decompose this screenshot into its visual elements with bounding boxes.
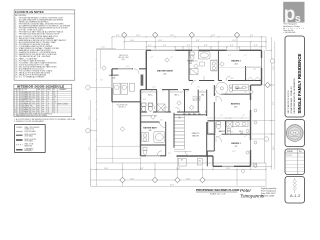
interior dim texts (100, 57, 256, 155)
svg-text:7'-2": 7'-2" (244, 92, 247, 94)
svg-text:4'-8": 4'-8" (204, 45, 208, 47)
svg-text:5-0: 5-0 (20, 106, 22, 108)
top dimension lines (112, 35, 266, 50)
svg-text:2-2: 2-2 (53, 98, 55, 100)
svg-text:2-0: 2-0 (20, 111, 22, 113)
fixtures: bath 3 (216, 82, 249, 94)
svg-text:W.I.C.: W.I.C. (175, 95, 180, 97)
svg-text:10'-2": 10'-2" (136, 35, 141, 37)
svg-text:15'-1": 15'-1" (211, 35, 216, 37)
svg-text:206: 206 (240, 133, 243, 135)
svg-text:PER CODE: PER CODE (193, 100, 201, 102)
svg-text:BATH 2: BATH 2 (219, 130, 225, 133)
svg-text:BATH 3: BATH 3 (236, 87, 242, 90)
roof outline west (96, 48, 146, 50)
exterior walls (112, 50, 262, 166)
sheet number box (285, 177, 305, 204)
svg-text:20'-0": 20'-0" (186, 178, 191, 180)
svg-text:207: 207 (235, 146, 238, 148)
svg-text:2-8: 2-8 (53, 92, 55, 94)
roof outline south (96, 162, 266, 164)
svg-text:FIN: FIN (42, 89, 44, 91)
svg-text:9'-0": 9'-0" (100, 80, 103, 82)
bottom dimension lines (91, 157, 266, 186)
svg-text:WD: WD (37, 111, 39, 113)
svg-text:2-8: 2-8 (20, 96, 22, 98)
svg-text:8'-4": 8'-4" (116, 35, 120, 37)
svg-text:10'-6": 10'-6" (273, 146, 275, 150)
svg-text:PT: PT (43, 106, 45, 108)
svg-text:BEDRM 2: BEDRM 2 (231, 103, 241, 105)
mbath lower fixtures (143, 148, 162, 156)
svg-text:PROPOSED SECOND FLOOR: PROPOSED SECOND FLOOR (196, 188, 240, 192)
svg-text:3'-0": 3'-0" (197, 87, 200, 89)
svg-text:LIN.: LIN. (201, 95, 205, 97)
fixtures: bath 2 (208, 121, 248, 133)
svg-text:5'-0": 5'-0" (187, 45, 191, 47)
svg-text:2-8: 2-8 (53, 104, 55, 106)
svg-text:WD: WD (37, 92, 39, 94)
svg-text:NEW ROOF: NEW ROOF (119, 55, 128, 57)
svg-text:2-6: 2-6 (20, 104, 22, 106)
svg-text:2-6: 2-6 (20, 92, 22, 94)
svg-text:4'-6": 4'-6" (143, 99, 146, 101)
svg-text:5'-4": 5'-4" (230, 132, 233, 134)
svg-text:44'-4": 44'-4" (170, 185, 175, 187)
svg-text:BEDRM 1: BEDRM 1 (231, 143, 241, 145)
top bath extras (189, 51, 218, 81)
svg-text:204: 204 (235, 64, 238, 66)
svg-text:POCKET DR - PTD: POCKET DR - PTD (23, 102, 35, 104)
svg-text:3'-6": 3'-6" (205, 111, 208, 113)
svg-text:SEC 0 BLOCK 00 LOT 00: SEC 0 BLOCK 00 LOT 00 (288, 90, 290, 114)
svg-text:5'-10": 5'-10" (101, 47, 105, 49)
svg-text:B: B (48, 96, 49, 98)
svg-text:BELOW - SEE: BELOW - SEE (118, 57, 128, 59)
svg-text:9'-0": 9'-0" (140, 168, 144, 170)
svg-text:6'-8": 6'-8" (196, 40, 200, 42)
svg-text:PT: PT (43, 104, 45, 106)
mech boxes (178, 159, 256, 167)
svg-text:PT: PT (43, 100, 45, 102)
svg-text:2-10: 2-10 (53, 102, 56, 104)
firm address (284, 23, 305, 35)
svg-text:WD: WD (37, 100, 39, 102)
svg-text:8'-0": 8'-0" (160, 120, 163, 122)
svg-text:6'-2": 6'-2" (126, 66, 129, 68)
svg-text:2-2: 2-2 (53, 111, 55, 113)
svg-text:208: 208 (149, 130, 152, 132)
bedrm3 closet doors (247, 67, 262, 81)
stamp box (285, 120, 305, 147)
svg-text:2-0: 2-0 (20, 98, 22, 100)
svg-text:WD: WD (37, 110, 39, 112)
svg-text:NEW 2x6 WOOD: NEW 2x6 WOOD (25, 139, 38, 141)
plumbing chase (141, 75, 144, 86)
svg-text:ISSUE: ISSUE (287, 151, 293, 153)
svg-text:G.C. TO OBTAIN ALL PERMITS: G.C. TO OBTAIN ALL PERMITS (19, 76, 45, 79)
svg-text:6'-5": 6'-5" (163, 45, 167, 47)
svg-text:PT: PT (43, 110, 45, 112)
svg-text:13'-6": 13'-6" (230, 78, 234, 80)
svg-text:WD: WD (37, 94, 39, 96)
svg-text:4-2: 4-2 (53, 100, 55, 102)
extra leader ticks (150, 54, 249, 137)
svg-text:12'-6": 12'-6" (89, 116, 91, 120)
svg-text:11: 11 (14, 111, 16, 113)
svg-text:WD: WD (37, 104, 39, 106)
svg-text:11'-0": 11'-0" (273, 66, 275, 70)
svg-text:C: C (48, 100, 49, 102)
svg-text:7'-4": 7'-4" (190, 57, 193, 59)
svg-text:WD: WD (37, 106, 39, 108)
door swings (134, 69, 231, 156)
svg-text:Peter: Peter (240, 188, 251, 193)
svg-text:NEW 2x4 WOOD: NEW 2x4 WOOD (25, 134, 38, 136)
svg-text:PROPOSED ADDITION / ALTERATION: PROPOSED ADDITION / ALTERATION (293, 78, 296, 114)
svg-text:LAUNDRY: LAUNDRY (109, 74, 119, 77)
keynote symbols (102, 58, 257, 173)
svg-text:PT: PT (43, 92, 45, 94)
left grid bubble (86, 129, 90, 133)
notes list rows (15, 16, 70, 78)
svg-text:WD: WD (37, 102, 39, 104)
floor plan notes box (14, 10, 75, 80)
svg-text:12'-8": 12'-8" (226, 168, 231, 170)
svg-text:5'-0": 5'-0" (168, 153, 171, 155)
svg-text:8'-2": 8'-2" (89, 146, 91, 150)
svg-text:SELF CLOSING: SELF CLOSING (58, 104, 68, 106)
svg-text:D: D (48, 102, 49, 104)
svg-text:2-4: 2-4 (20, 108, 22, 110)
svg-text:ROOF BELOW: ROOF BELOW (117, 105, 128, 107)
svg-text:14'-2": 14'-2" (176, 168, 181, 170)
Ps logo (283, 2, 304, 23)
svg-text:9'-2": 9'-2" (250, 35, 254, 37)
svg-text:R.A.: R.A. (293, 132, 297, 135)
svg-text:WD: WD (37, 98, 39, 100)
svg-text:4'-6": 4'-6" (254, 45, 258, 47)
svg-text:PT: PT (43, 108, 45, 110)
bottom title (196, 187, 276, 198)
windows in exterior walls (111, 49, 263, 167)
svg-text:2-4: 2-4 (20, 94, 22, 96)
svg-text:C: C (48, 106, 49, 108)
svg-text:PT: PT (43, 111, 45, 113)
svg-text:WD: WD (37, 108, 39, 110)
svg-text:SYMBOL: SYMBOL (16, 127, 22, 129)
fixtures: top bath (190, 52, 217, 75)
svg-text:21'-6": 21'-6" (158, 40, 163, 42)
door gaps (133, 68, 228, 157)
wall legend box (15, 125, 46, 153)
svg-text:202: 202 (113, 78, 116, 80)
svg-text:16'-6": 16'-6" (130, 178, 135, 180)
svg-text:12'-2": 12'-2" (232, 151, 236, 153)
svg-text:00 BAYSIDE AVE - TOWN, NY: 00 BAYSIDE AVE - TOWN, NY (290, 86, 293, 114)
right grid bubble mid (252, 138, 264, 140)
svg-text:SZ: SZ (20, 89, 22, 91)
svg-text:8'-0": 8'-0" (230, 45, 234, 47)
svg-text:10: 10 (14, 110, 16, 112)
svg-text:4'-2": 4'-2" (148, 45, 152, 47)
svg-text:10'-4": 10'-4" (104, 168, 109, 170)
svg-text:REMOVED: REMOVED (25, 145, 34, 147)
svg-text:BEDRM 3: BEDRM 3 (231, 61, 241, 63)
svg-text:MASTER BDRM: MASTER BDRM (157, 70, 173, 73)
svg-text:W.I.C.: W.I.C. (148, 95, 153, 97)
right grid bubble (270, 59, 274, 63)
svg-text:4-0: 4-0 (20, 100, 22, 102)
svg-text:BI-FOLD - PTD: BI-FOLD - PTD (23, 100, 33, 102)
svg-text:2-6: 2-6 (20, 110, 22, 112)
schedule footnotes (14, 118, 76, 123)
svg-text:2-10: 2-10 (53, 96, 56, 98)
closet rails (142, 68, 247, 93)
interior door schedule table (14, 84, 72, 117)
svg-text:2'-8": 2'-8" (253, 69, 256, 71)
stair treads (175, 112, 185, 149)
room labels (109, 55, 244, 163)
svg-text:SINGLE FAMILY RESIDENCE: SINGLE FAMILY RESIDENCE (297, 54, 302, 114)
svg-text:PT: PT (43, 102, 45, 104)
svg-text:2-8: 2-8 (53, 110, 55, 112)
svg-text:TYPE: TYPE (23, 89, 27, 91)
hall annotation (193, 95, 202, 102)
svg-text:A-1.2: A-1.2 (290, 193, 301, 198)
svg-text:10.27.21: 10.27.21 (287, 155, 293, 157)
svg-text:t. 000.000.0000: t. 000.000.0000 (284, 31, 296, 34)
svg-text:2-6: 2-6 (53, 94, 55, 96)
fixtures: laundry (114, 83, 135, 94)
svg-text:PT: PT (43, 94, 45, 96)
svg-text:2-6: 2-6 (53, 108, 55, 110)
svg-text:14'-6": 14'-6" (130, 40, 135, 42)
project title box (285, 36, 305, 117)
fixtures: master bath (141, 103, 166, 143)
svg-text:p: p (284, 4, 296, 25)
svg-text:SCALE: 1/4" = 1'-0": SCALE: 1/4" = 1'-0" (210, 192, 226, 195)
svg-text:5-2: 5-2 (53, 106, 55, 108)
stair landing lines (174, 115, 192, 152)
svg-text:12:03:35 -04'00': 12:03:35 -04'00' (261, 195, 275, 197)
svg-text:PT: PT (43, 96, 45, 98)
svg-text:M.BATH: M.BATH (187, 60, 194, 63)
svg-text:203: 203 (189, 63, 192, 65)
svg-text:205: 205 (234, 107, 237, 109)
interior walls (141, 50, 262, 166)
svg-text:PT: PT (43, 98, 45, 100)
svg-text:FLOOR PLAN NOTES: FLOOR PLAN NOTES (15, 10, 44, 14)
svg-text:11'-4": 11'-4" (232, 40, 237, 42)
svg-text:201: 201 (163, 73, 166, 75)
svg-text:INTERIOR DOOR SCHEDULE: INTERIOR DOOR SCHEDULE (17, 85, 64, 89)
upper-left dim (96, 47, 116, 49)
svg-text:BELOW: BELOW (192, 135, 199, 137)
revision table (285, 149, 305, 175)
svg-text:12'-4": 12'-4" (152, 87, 156, 89)
svg-text:W.I.C.: W.I.C. (239, 131, 244, 133)
grid bubbles top (122, 32, 127, 37)
bath2 dim + extras (207, 117, 250, 119)
deck inner lines (96, 157, 140, 159)
svg-text:11'-8": 11'-8" (228, 118, 232, 120)
svg-text:9'-8": 9'-8" (273, 101, 275, 105)
svg-text:2-8: 2-8 (20, 102, 22, 104)
svg-text:12'-0": 12'-0" (170, 35, 175, 37)
side dimension lines (88, 37, 275, 186)
grid bubbles bottom (120, 177, 125, 182)
svg-text:MASTER BATH: MASTER BATH (143, 126, 157, 129)
svg-text:WD: WD (37, 96, 39, 98)
